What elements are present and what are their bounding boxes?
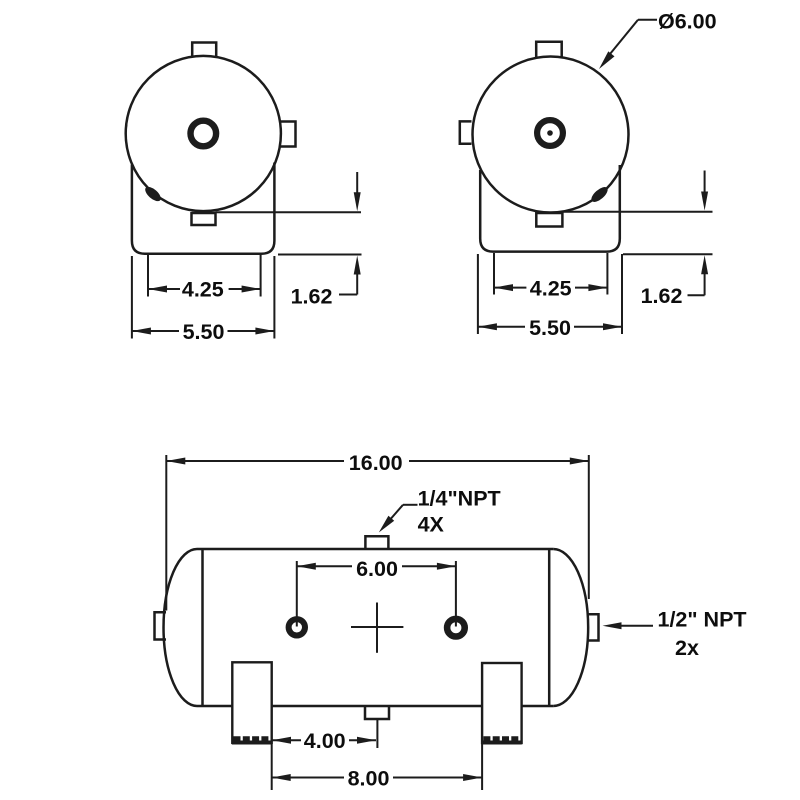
svg-text:4.25: 4.25 xyxy=(530,277,572,301)
svg-text:5.50: 5.50 xyxy=(183,320,225,344)
svg-text:1/2" NPT: 1/2" NPT xyxy=(658,608,747,632)
svg-text:1.62: 1.62 xyxy=(291,284,333,308)
svg-text:8.00: 8.00 xyxy=(348,766,390,790)
svg-text:5.50: 5.50 xyxy=(529,316,571,340)
svg-text:4.25: 4.25 xyxy=(182,278,224,302)
svg-text:1/4"NPT: 1/4"NPT xyxy=(418,487,501,511)
svg-text:4.00: 4.00 xyxy=(304,729,346,753)
svg-text:4X: 4X xyxy=(418,513,445,537)
svg-text:Ø6.00: Ø6.00 xyxy=(658,10,717,34)
svg-text:6.00: 6.00 xyxy=(356,557,398,581)
svg-text:2x: 2x xyxy=(675,636,699,660)
svg-text:1.62: 1.62 xyxy=(641,284,683,308)
svg-text:16.00: 16.00 xyxy=(349,451,403,475)
